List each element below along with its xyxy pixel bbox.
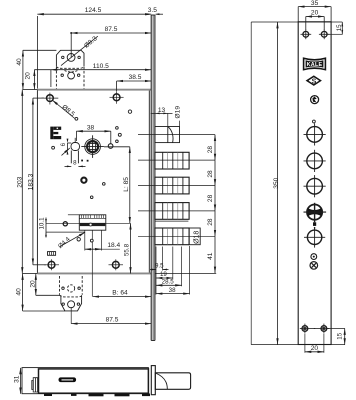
dim 183.3: [27, 98, 46, 265]
bottom tab hole: [68, 301, 75, 308]
plate hole E: [304, 227, 325, 248]
dim 35: [298, 0, 331, 22]
rivet bottom-left: [44, 259, 59, 270]
dim B: 64: [93, 289, 151, 296]
dim 203: [17, 90, 24, 274]
svg-text:28: 28: [207, 218, 214, 226]
dim 20 top plate: [306, 10, 324, 30]
small screw hole: [310, 262, 318, 270]
svg-text:10.1: 10.1: [39, 217, 46, 230]
svg-text:3.5: 3.5: [148, 7, 157, 14]
cylinder hole (knurled): [81, 135, 104, 158]
dim 350: [251, 22, 345, 345]
small hole a: [128, 110, 131, 113]
svg-text:55.8: 55.8: [124, 243, 131, 256]
svg-text:Ø18: Ø18: [194, 231, 201, 244]
plate bottom screw right: [314, 324, 330, 334]
dim 15 top: [251, 22, 343, 34]
dim 13 latch: [151, 107, 173, 127]
dim 6: [60, 139, 71, 155]
svg-text:28: 28: [207, 170, 214, 178]
dim 124.5: [37, 7, 151, 88]
plate hole C: [304, 175, 326, 197]
svg-text:350: 350: [273, 177, 280, 188]
lock body case outline: [37, 89, 151, 275]
rivet top-right: [110, 92, 124, 104]
bottom view main case: [32, 369, 149, 393]
small hole g: [90, 196, 93, 199]
dim 20 bottom: [29, 274, 60, 296]
svg-text:28: 28: [207, 194, 214, 202]
small hatched part: [48, 252, 56, 256]
svg-text:41: 41: [207, 252, 214, 260]
svg-text:Ø19: Ø19: [174, 106, 181, 119]
bottom view slot: [59, 377, 77, 382]
dim chain 28 x4 and 41: [155, 135, 216, 274]
dim 38 cylinder: [76, 124, 110, 143]
dim 19: [156, 271, 173, 278]
bottom view rear housing: [22, 368, 148, 394]
bottom view tabs: [44, 393, 150, 396]
svg-text:20: 20: [29, 280, 36, 288]
dim 10.1: [39, 217, 131, 238]
plate top screw left: [301, 30, 312, 40]
svg-text:40: 40: [16, 288, 23, 296]
dim L:85: [104, 147, 130, 224]
small hole h: [63, 222, 67, 226]
top tab small holes: [62, 56, 64, 58]
centerline row1: [138, 159, 215, 161]
svg-text:6: 6: [60, 142, 67, 146]
svg-text:20: 20: [25, 72, 32, 80]
centerline latch: [138, 134, 215, 136]
svg-text:20: 20: [311, 10, 319, 17]
bottom mounting tab: [60, 276, 83, 311]
svg-text:20: 20: [311, 345, 319, 352]
small hole d2: [118, 133, 121, 136]
dim 20 top: [25, 70, 51, 90]
small hole d: [116, 140, 119, 143]
leader dim Ø8.3: [61, 35, 99, 65]
slider slot lines: [70, 151, 72, 164]
small hole i: [77, 238, 80, 241]
latch guide line: [155, 220, 189, 222]
dim 18.4: [85, 242, 121, 249]
follower hub box: [68, 215, 106, 297]
svg-text:15: 15: [337, 332, 344, 339]
svg-text:203: 203: [17, 176, 24, 187]
svg-text:B: 64: B: 64: [112, 289, 128, 296]
dim 9.5: [150, 263, 169, 271]
svg-text:28: 28: [207, 146, 214, 154]
faceplate front outline: [298, 22, 331, 345]
svg-text:38: 38: [169, 287, 176, 294]
E-shaped stamp: [50, 127, 61, 140]
centerline row4: [138, 235, 215, 237]
dim 87.5 top: [70, 26, 151, 57]
svg-text:18.4: 18.4: [107, 242, 120, 249]
dim 3.5: [147, 7, 163, 15]
plate bottom screw left: [300, 324, 315, 334]
bottom view faceplate bar: [148, 366, 155, 395]
rivet bottom-right: [109, 259, 124, 270]
dim 28.5: [156, 279, 182, 286]
centerline dot mid: [314, 227, 316, 229]
faceplate (side view, main drawing): [151, 15, 155, 341]
svg-text:38: 38: [87, 124, 95, 131]
small hole c: [116, 127, 119, 130]
dim 38 bottom chain: [156, 287, 190, 294]
dim 110.5: [51, 63, 151, 87]
small hole f: [103, 183, 106, 186]
svg-text:183.3: 183.3: [27, 173, 34, 190]
leader dim Ø4.4: [57, 232, 85, 250]
svg-text:L: 85: L: 85: [123, 177, 130, 192]
svg-text:8: 8: [73, 160, 77, 167]
latch head (front view): [155, 127, 180, 143]
tiny square pins: [81, 160, 83, 162]
svg-text:13: 13: [158, 107, 166, 114]
dim Ø19: [174, 106, 181, 127]
top mounting tab: [56, 50, 84, 89]
Ø18 label box: [189, 228, 201, 245]
svg-text:28.5: 28.5: [162, 279, 175, 286]
top tab hole Ø8.3: [67, 54, 75, 62]
small hole e: [52, 146, 55, 149]
centerline row3: [138, 210, 215, 212]
oval right of cylinder: [108, 144, 113, 149]
bolt pin row 2: [155, 177, 189, 194]
plate top screw right: [319, 30, 330, 40]
dim 8: [65, 160, 86, 168]
plate hole A: [304, 123, 326, 145]
bolt pin row 1: [155, 152, 189, 169]
bolt pin row 3: [155, 203, 189, 220]
dim 31: [14, 368, 21, 394]
leader dim Ø8.5: [52, 100, 76, 119]
svg-text:KALE: KALE: [307, 62, 323, 68]
svg-text:35: 35: [311, 0, 319, 7]
svg-text:19: 19: [160, 271, 167, 278]
rivet top-left: [42, 93, 59, 105]
leader slider: [62, 148, 70, 155]
maker mark circle: [311, 96, 319, 104]
dim 15 bottom: [327, 329, 345, 345]
dim 55.8: [124, 223, 131, 273]
chain extension lines: [156, 246, 190, 295]
grommet rivet mid-body: [81, 178, 86, 183]
dim 87.5 bottom: [71, 307, 151, 324]
dim 40 top: [16, 50, 57, 89]
plate hole D with cam: [304, 203, 327, 226]
top tab hidden hole: [68, 72, 75, 79]
svg-text:15: 15: [336, 24, 343, 31]
svg-text:40: 40: [16, 58, 23, 66]
KALE logo: [303, 57, 326, 70]
centerline row2: [138, 185, 215, 187]
dim 40 bottom: [16, 274, 65, 312]
svg-text:87.5: 87.5: [106, 316, 119, 323]
svg-text:38.5: 38.5: [129, 74, 142, 81]
bottom view latch bolt: [155, 373, 190, 390]
svg-text:31: 31: [14, 375, 21, 383]
dim 38.5: [117, 74, 152, 92]
svg-text:124.5: 124.5: [85, 7, 102, 14]
svg-text:110.5: 110.5: [93, 63, 109, 70]
small hole b: [75, 117, 78, 120]
svg-text:S: S: [312, 78, 317, 85]
svg-text:87.5: 87.5: [105, 26, 118, 33]
TSE diamond: [306, 75, 322, 86]
bottom tab hidden hole: [68, 285, 75, 292]
bolt pin row 4: [155, 228, 189, 245]
small double hole: [311, 254, 317, 260]
follower slider knob: [71, 143, 80, 151]
centerline dot top: [313, 120, 316, 123]
plate hole B: [304, 150, 326, 172]
dim 20 bottom plate: [305, 334, 324, 353]
